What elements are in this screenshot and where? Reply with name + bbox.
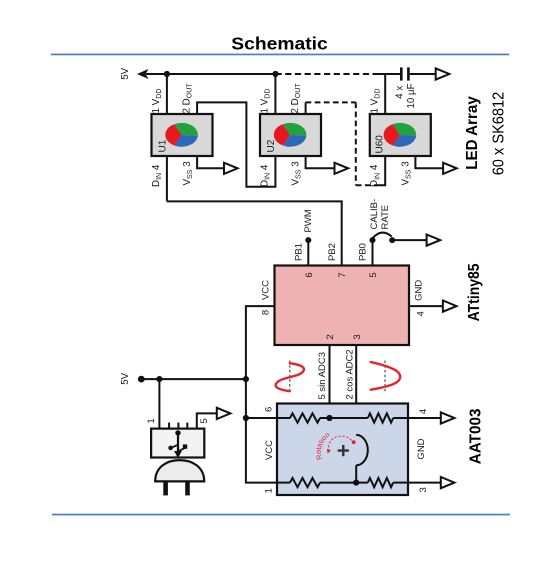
- USB plug shell: [155, 460, 204, 481]
- wire USB pin5 to ground: [197, 408, 231, 429]
- USB trident icon: [168, 430, 187, 458]
- junction cos tap: [353, 480, 359, 486]
- svg-text:5 sin ADC3: 5 sin ADC3: [317, 352, 328, 400]
- svg-text:U1: U1: [158, 139, 169, 152]
- wire dashed 5V rail to U60: [276, 73, 401, 75]
- wire U1 VDD to rail: [166, 74, 168, 114]
- U60 pin 1 VDD label: [369, 89, 381, 114]
- U60 pin 3 VSS label: [400, 161, 412, 186]
- svg-text:PB2: PB2: [327, 243, 338, 261]
- svg-text:2 cos ADC2: 2 cos ADC2: [345, 349, 356, 399]
- sine wave symbol (sin): [276, 361, 304, 392]
- wire cos tap with sensor bulge: [356, 435, 368, 483]
- svg-text:ATtiny85: ATtiny85: [466, 263, 483, 321]
- svg-text:1: 1: [146, 418, 157, 423]
- junction sin tap: [326, 415, 332, 421]
- svg-text:5: 5: [368, 272, 379, 277]
- connector J1 USB body: [151, 429, 204, 458]
- svg-text:PWM: PWM: [303, 209, 314, 232]
- junction USB pin1: [156, 376, 162, 382]
- AAT003 pin number 6: [263, 407, 274, 412]
- wire AAT003 top row: [277, 417, 408, 419]
- svg-text:8: 8: [261, 310, 272, 315]
- svg-text:4: 4: [416, 311, 427, 316]
- ATtiny pin 5 PB0 stub: [370, 237, 376, 265]
- svg-text:2: 2: [325, 334, 336, 339]
- label LED Array: [464, 96, 481, 170]
- svg-text:U2: U2: [266, 139, 277, 152]
- AAT003 pin number 3: [418, 487, 429, 492]
- svg-text:10 µF: 10 µF: [406, 83, 417, 108]
- wire AAT003 pin4 to ground: [408, 412, 454, 423]
- ground after capacitor: [436, 68, 450, 79]
- wire U1 DIN down: [166, 156, 168, 201]
- svg-text:1: 1: [263, 488, 274, 493]
- svg-text:5V: 5V: [120, 67, 131, 79]
- svg-text:5: 5: [199, 418, 210, 423]
- label GND (ATtiny): [413, 280, 424, 301]
- cosine wave symbol (cos): [371, 361, 400, 392]
- svg-text:60 x SK6812: 60 x SK6812: [491, 92, 508, 176]
- wire U1 DOUT to U2 DIN: [197, 102, 275, 186]
- U2 pin 2 DOUT label: [290, 83, 302, 114]
- resistor R1 (sin bridge left): [290, 413, 320, 422]
- bottom rule: [52, 514, 510, 516]
- svg-text:3: 3: [352, 334, 363, 339]
- U60 pin 4 DIN label: [369, 164, 381, 187]
- U2 pin 3 VSS label: [291, 161, 303, 186]
- wire ATtiny pin4 GND: [409, 301, 457, 312]
- USB pin number 1: [146, 418, 157, 423]
- AAT003 pin number 4: [418, 409, 429, 414]
- wire U60 DIN: [379, 156, 385, 185]
- U1 pin 3 VSS label: [182, 161, 194, 186]
- svg-text:PB1: PB1: [293, 243, 304, 261]
- svg-text:LED Array: LED Array: [464, 96, 481, 170]
- LED IC U2 body: [260, 114, 321, 156]
- wire AAT003 bottom row: [277, 482, 408, 484]
- page title Schematic: [231, 33, 328, 53]
- ATtiny pin 6 PB1 PWM stub: [305, 237, 311, 265]
- top rule: [51, 54, 509, 56]
- wire U60 VDD to rail: [384, 74, 386, 114]
- LED IC U60 body: [370, 114, 431, 156]
- capacitor C1 4x10uF: [394, 67, 435, 108]
- wire U1 VSS to ground: [197, 156, 238, 174]
- svg-text:6: 6: [263, 407, 274, 412]
- switch SW1 calibrate: [373, 233, 427, 244]
- svg-text:CALIB-: CALIB-: [369, 199, 380, 230]
- wire ATtiny pin3 ADC2 to AAT003: [355, 345, 357, 435]
- U2 pin 4 DIN label: [259, 164, 271, 187]
- sensor AAT003 body: [277, 404, 408, 496]
- wire 5V feed to AAT003 VCC pins: [243, 379, 277, 483]
- ATtiny pin number 4: [416, 311, 427, 316]
- label AAT003: [467, 408, 484, 464]
- label CALIB-RATE: [369, 199, 391, 230]
- label GND (AAT003): [416, 438, 427, 459]
- wire U2 DOUT stub: [305, 102, 307, 114]
- resistor R3 (cos bridge left): [290, 478, 320, 487]
- svg-text:3: 3: [418, 487, 429, 492]
- label PB2: [327, 243, 338, 261]
- ATtiny pin number 2: [325, 334, 336, 339]
- USB plug prongs: [163, 481, 190, 495]
- svg-text:7: 7: [337, 272, 348, 277]
- op chip ATtiny85 U-MCU body: [275, 266, 410, 346]
- rotation arrow (red): [327, 436, 356, 454]
- USB pin number 5: [199, 418, 210, 423]
- wire U2 VDD to rail: [274, 74, 276, 114]
- node 5V (bottom): [120, 372, 246, 384]
- junction U1 VDD: [164, 71, 170, 77]
- svg-text:U60: U60: [375, 135, 386, 154]
- wire U60 VSS to ground: [415, 156, 456, 174]
- U1 pin 4 DIN label: [151, 164, 163, 187]
- svg-text:VCC: VCC: [261, 280, 272, 300]
- ATtiny pin number 8: [261, 310, 272, 315]
- ATtiny pin number 5: [368, 272, 379, 277]
- resistor R2 (sin bridge right): [368, 413, 393, 422]
- svg-text:GND: GND: [413, 280, 424, 301]
- label PB0: [358, 243, 369, 261]
- label VCC (ATtiny): [261, 280, 272, 300]
- wire ATtiny pin7 PB2 to U1 DIN: [167, 201, 342, 265]
- USB NC pin stubs: [169, 423, 187, 429]
- U1 pin 2 DOUT label: [182, 83, 194, 114]
- svg-text:5V: 5V: [120, 372, 131, 384]
- junction VCC feed: [243, 376, 249, 382]
- junction U2 VDD: [272, 71, 278, 77]
- ATtiny pin number 3: [352, 334, 363, 339]
- svg-text:GND: GND: [416, 438, 427, 459]
- label VCC (AAT003): [264, 440, 275, 460]
- rotation axis mark (+): [338, 445, 349, 456]
- ATtiny pin number 6: [304, 272, 315, 277]
- label PWM: [303, 209, 314, 232]
- label 60 x SK6812: [491, 92, 508, 176]
- LED IC U1 body: [152, 114, 213, 156]
- AAT003 pin number 1: [263, 488, 274, 493]
- wire USB pin1 to 5V: [158, 379, 160, 429]
- label 5 sin ADC3: [317, 352, 328, 400]
- svg-text:RATE: RATE: [380, 205, 391, 230]
- label 2 cos ADC2: [345, 349, 356, 399]
- node 5V (top rail): [120, 67, 275, 79]
- wire ATtiny pin8 VCC to 5V: [246, 306, 275, 379]
- wire ATtiny pin2 ADC3 to AAT003: [329, 345, 331, 418]
- U2 pin 1 VDD label: [260, 89, 272, 114]
- svg-text:4: 4: [418, 409, 429, 414]
- U1 pin 1 VDD label: [151, 89, 163, 114]
- label ATtiny85: [466, 263, 483, 321]
- svg-text:AAT003: AAT003: [467, 408, 484, 464]
- ground after switch: [427, 235, 441, 246]
- svg-text:PB0: PB0: [358, 243, 369, 261]
- svg-text:6: 6: [304, 272, 315, 277]
- resistor R4 (cos bridge right): [368, 478, 393, 487]
- label PB1: [293, 243, 304, 261]
- svg-text:4 x: 4 x: [394, 86, 405, 99]
- label Rotation (curved red): [314, 430, 332, 461]
- wire U2 VSS to ground: [306, 156, 349, 174]
- wire AAT003 pin3 to ground: [408, 477, 454, 488]
- ATtiny pin number 7: [337, 272, 348, 277]
- wire dashed U2 DOUT toward U60: [306, 102, 379, 185]
- svg-text:VCC: VCC: [264, 440, 275, 460]
- svg-text:Schematic: Schematic: [231, 33, 328, 53]
